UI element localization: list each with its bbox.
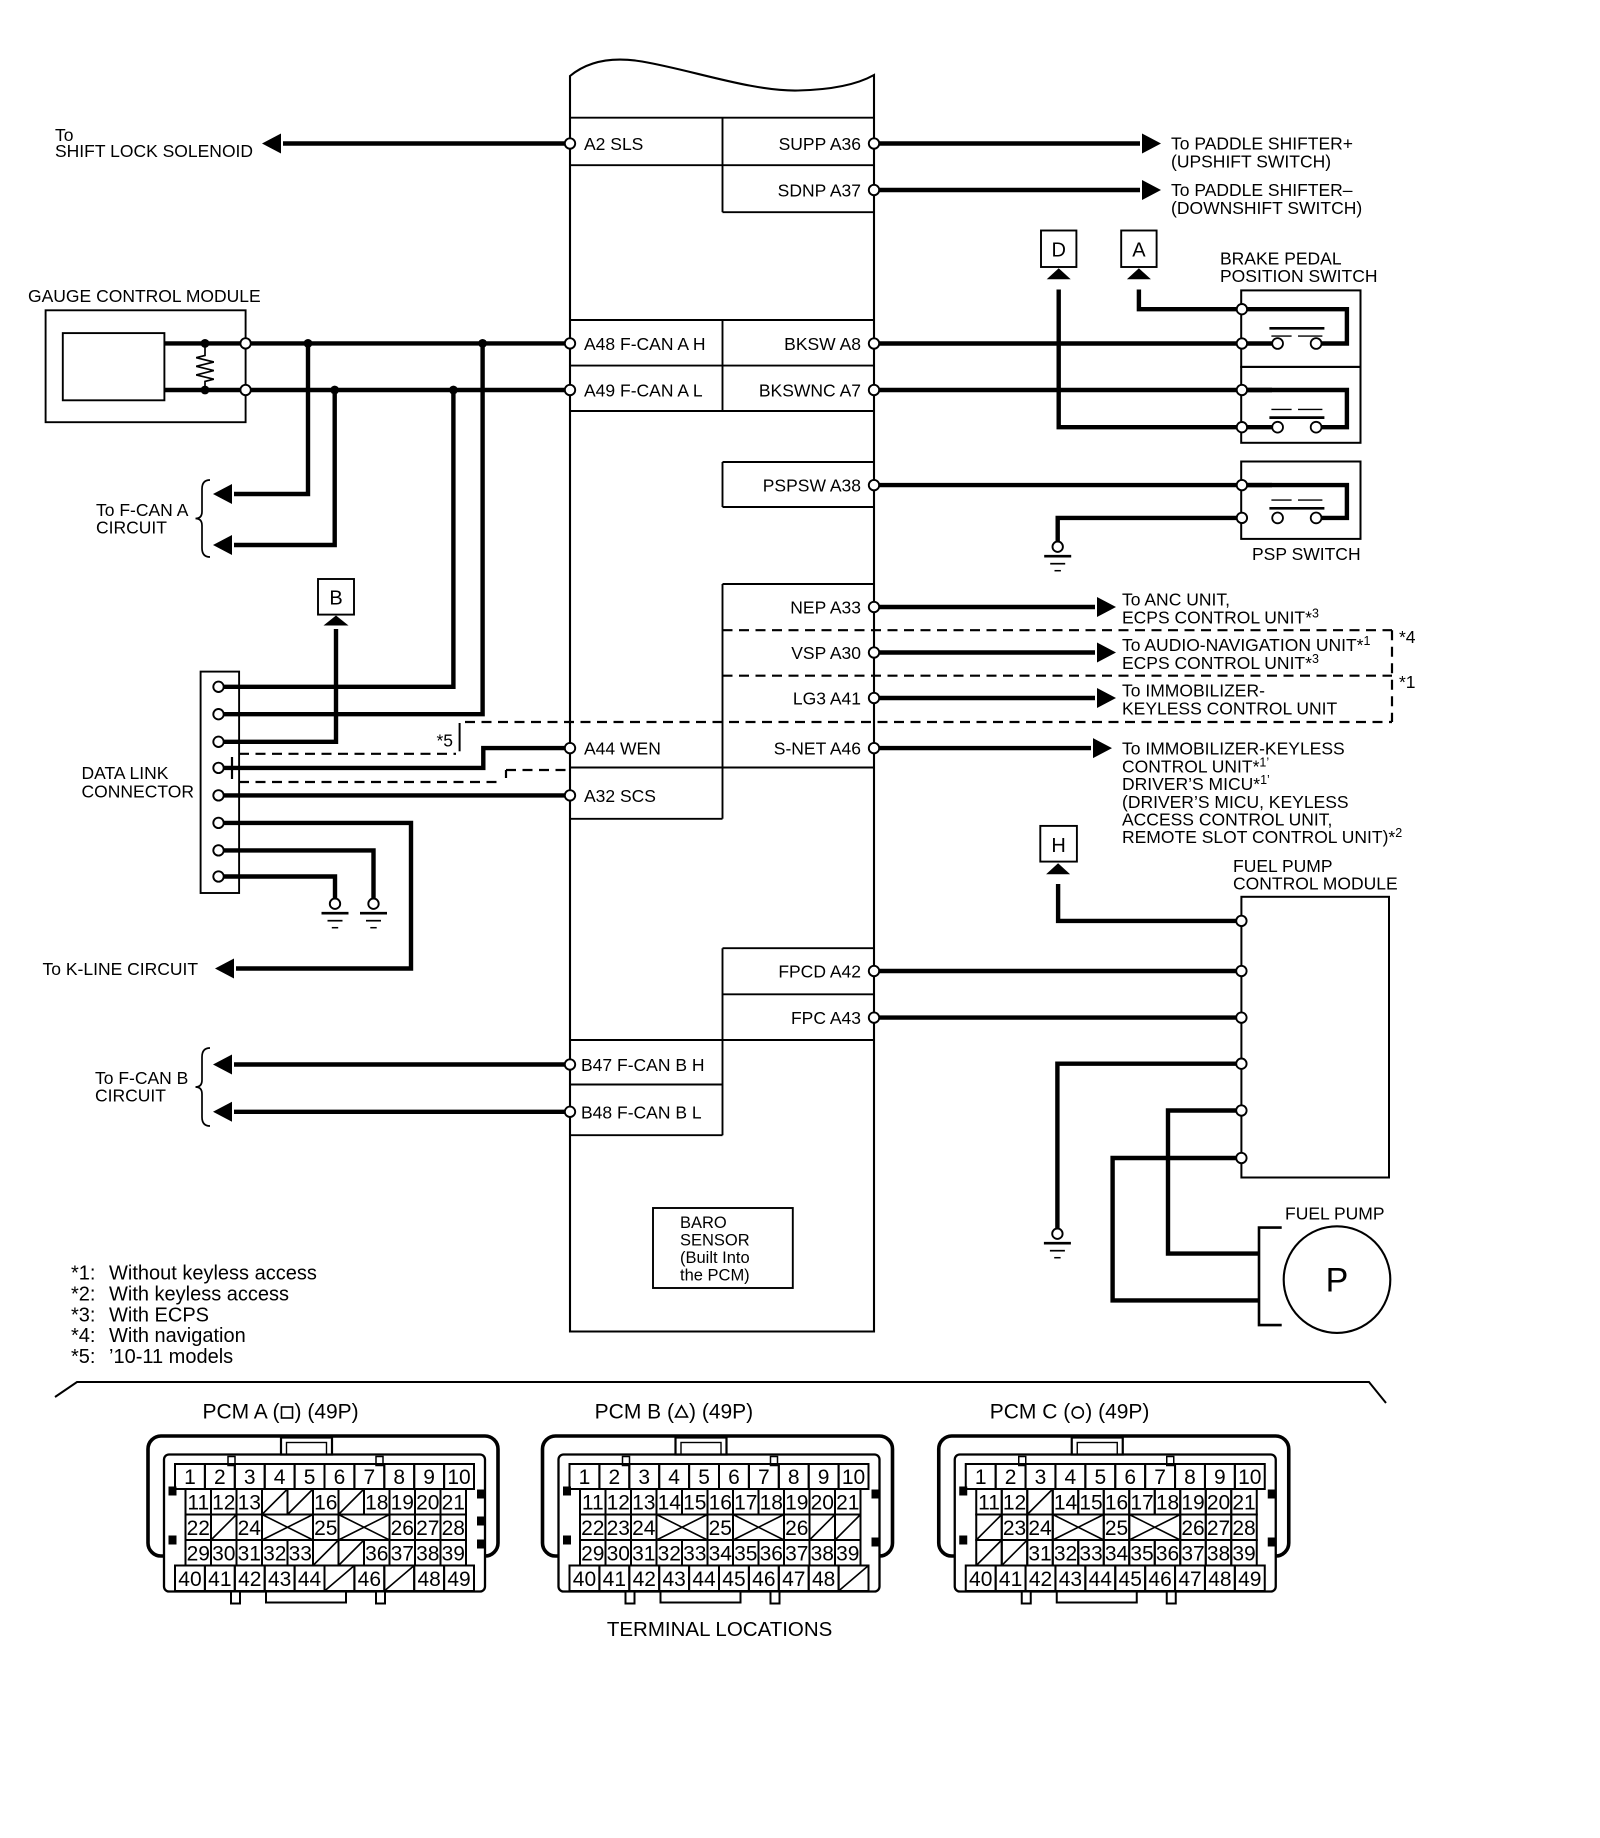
svg-text:PCM B (: PCM B ( xyxy=(595,1401,674,1424)
module ground wire xyxy=(1057,1064,1241,1229)
svg-text:10: 10 xyxy=(447,1466,470,1489)
svg-text:27: 27 xyxy=(1207,1517,1230,1540)
svg-text:33: 33 xyxy=(683,1542,706,1565)
svg-text:14: 14 xyxy=(1054,1491,1078,1514)
terminal connector PCM B (49P) xyxy=(543,1401,893,1604)
svg-text:PCM A (: PCM A ( xyxy=(202,1401,279,1424)
svg-text:DATA LINK: DATA LINK xyxy=(82,763,169,783)
dashed jog vertical xyxy=(505,770,507,782)
wire connector H to module xyxy=(1058,884,1241,921)
svg-text:9: 9 xyxy=(423,1466,435,1489)
wire F-CAN A L xyxy=(164,388,570,392)
svg-text:45: 45 xyxy=(1119,1568,1142,1591)
svg-text:44: 44 xyxy=(1089,1568,1113,1591)
svg-text:B47 F-CAN B H: B47 F-CAN B H xyxy=(581,1055,705,1075)
svg-text:With ECPS: With ECPS xyxy=(109,1304,209,1326)
wire SUPP A36 to paddle shifter+ xyxy=(874,141,1140,145)
svg-text:FUEL PUMP: FUEL PUMP xyxy=(1285,1204,1385,1224)
svg-text:*1: *1 xyxy=(1399,672,1416,692)
switch2 internal jumper xyxy=(1242,390,1347,427)
svg-text:44: 44 xyxy=(298,1568,322,1591)
DLC pin 7 xyxy=(213,845,223,855)
svg-text:42: 42 xyxy=(238,1568,261,1591)
pin circle A37 xyxy=(869,185,879,195)
wire FPC A43 xyxy=(874,1015,1241,1019)
svg-text:6: 6 xyxy=(728,1466,740,1489)
svg-text:16: 16 xyxy=(709,1491,732,1514)
svg-text:21: 21 xyxy=(1232,1491,1255,1514)
wire LG3 A41 xyxy=(874,696,1095,700)
svg-text:16: 16 xyxy=(1105,1491,1128,1514)
svg-text:GAUGE CONTROL MODULE: GAUGE CONTROL MODULE xyxy=(28,286,261,306)
svg-text:5: 5 xyxy=(304,1466,316,1489)
pin circle A42 xyxy=(869,966,879,976)
terminal connector PCM A (49P) xyxy=(148,1401,498,1604)
wire module to fuel pump + xyxy=(1168,1111,1259,1254)
svg-text:Without keyless access: Without keyless access xyxy=(109,1263,317,1285)
svg-text:49: 49 xyxy=(1238,1568,1261,1591)
switch2 pin lower xyxy=(1237,422,1247,432)
svg-text:3: 3 xyxy=(1035,1466,1047,1489)
svg-text:20: 20 xyxy=(811,1491,834,1514)
svg-text:*3:: *3: xyxy=(71,1304,95,1326)
pin circle A30 xyxy=(869,647,879,657)
module pin H xyxy=(1236,916,1246,926)
svg-text:42: 42 xyxy=(1029,1568,1052,1591)
wire S-NET A46 xyxy=(874,746,1091,750)
PCM pin cell lines xyxy=(570,117,874,119)
svg-text:41: 41 xyxy=(603,1568,626,1591)
svg-text:12: 12 xyxy=(212,1491,235,1514)
pin circle A36 xyxy=(869,138,879,148)
svg-text:39: 39 xyxy=(836,1542,859,1565)
wire DLC pin1 to F-CAN A L xyxy=(219,390,454,687)
module pin GND xyxy=(1236,1059,1246,1069)
PSP pin upper xyxy=(1237,480,1247,490)
svg-text:4: 4 xyxy=(1065,1466,1077,1489)
pin circle B47 xyxy=(565,1059,575,1069)
DLC pin 8 xyxy=(213,871,223,881)
svg-text:39: 39 xyxy=(1232,1542,1255,1565)
svg-text:24: 24 xyxy=(632,1517,656,1540)
svg-text:40: 40 xyxy=(573,1568,596,1591)
svg-text:40: 40 xyxy=(969,1568,992,1591)
svg-text:1: 1 xyxy=(184,1466,196,1489)
svg-text:34: 34 xyxy=(1105,1542,1129,1565)
svg-text:) (49P): ) (49P) xyxy=(295,1401,359,1424)
svg-text:5: 5 xyxy=(1094,1466,1106,1489)
pin circle A7 xyxy=(869,385,879,395)
wire VSP A30 xyxy=(874,650,1095,654)
arrowhead F-CAN A L xyxy=(213,535,232,555)
svg-text:11: 11 xyxy=(582,1491,604,1514)
wire DLC to K-line circuit xyxy=(224,823,411,969)
svg-text:2: 2 xyxy=(1005,1466,1017,1489)
svg-text:11: 11 xyxy=(187,1491,209,1514)
svg-text:41: 41 xyxy=(208,1568,231,1591)
arrowhead into B xyxy=(324,616,349,626)
wire A44 WEN xyxy=(224,748,570,768)
svg-text:H: H xyxy=(1051,835,1065,857)
pin circle A49 xyxy=(565,385,575,395)
section separator line xyxy=(55,1382,1386,1403)
svg-text:36: 36 xyxy=(1156,1542,1179,1565)
module pin FP+ xyxy=(1236,1105,1246,1115)
svg-text:37: 37 xyxy=(785,1542,808,1565)
fuel pump bracket xyxy=(1259,1228,1282,1326)
svg-text:23: 23 xyxy=(607,1517,630,1540)
svg-text:28: 28 xyxy=(442,1517,465,1540)
svg-text:17: 17 xyxy=(1130,1491,1153,1514)
wire SDNP A37 to paddle shifter- xyxy=(874,188,1140,192)
ground PSP switch xyxy=(1044,542,1071,571)
svg-text:) (49P): ) (49P) xyxy=(689,1401,753,1424)
svg-text:31: 31 xyxy=(238,1542,261,1565)
svg-text:42: 42 xyxy=(633,1568,656,1591)
svg-text:D: D xyxy=(1051,240,1065,262)
svg-text:26: 26 xyxy=(785,1517,808,1540)
svg-text:8: 8 xyxy=(788,1466,800,1489)
pin circle B48 xyxy=(565,1107,575,1117)
connector box B xyxy=(318,579,354,615)
svg-text:18: 18 xyxy=(760,1491,783,1514)
dashed wire from DLC pin4 row xyxy=(239,781,497,783)
svg-text:20: 20 xyxy=(416,1491,439,1514)
svg-text:5: 5 xyxy=(698,1466,710,1489)
arrowhead F-CAN A H xyxy=(213,484,232,504)
svg-text:With keyless access: With keyless access xyxy=(109,1284,289,1306)
brake switch box 1 xyxy=(1241,290,1360,367)
svg-text:43: 43 xyxy=(662,1568,685,1591)
svg-text:8: 8 xyxy=(393,1466,405,1489)
svg-text:33: 33 xyxy=(289,1542,312,1565)
svg-text:32: 32 xyxy=(263,1542,286,1565)
svg-text:48: 48 xyxy=(417,1568,440,1591)
wire module to fuel pump - xyxy=(1113,1158,1259,1300)
svg-text:*5: *5 xyxy=(436,731,453,751)
svg-text:9: 9 xyxy=(818,1466,830,1489)
resistor inside gauge module xyxy=(196,343,214,390)
svg-text:11: 11 xyxy=(978,1491,1000,1514)
svg-text:18: 18 xyxy=(1156,1491,1179,1514)
svg-text:SDNP A37: SDNP A37 xyxy=(778,181,861,201)
svg-text:38: 38 xyxy=(1207,1542,1230,1565)
PCM inner column line xyxy=(722,118,724,213)
arrowhead LG3 xyxy=(1097,688,1116,708)
svg-text:FPCD A42: FPCD A42 xyxy=(778,962,861,982)
switch1 contacts (normally open) xyxy=(1269,328,1324,349)
svg-text:PSPSW A38: PSPSW A38 xyxy=(763,476,861,496)
wire F-CAN A H to F-CAN A circuit xyxy=(234,343,308,494)
connector box A xyxy=(1121,231,1156,268)
svg-text:33: 33 xyxy=(1079,1542,1102,1565)
arrowhead NEP xyxy=(1097,597,1116,617)
wire BKSWNC A7 to switch2 xyxy=(874,388,1272,392)
svg-text:30: 30 xyxy=(212,1542,235,1565)
wire from connector D to switch2 xyxy=(1059,290,1242,428)
svg-text:37: 37 xyxy=(391,1542,414,1565)
pin circle A44 xyxy=(565,743,575,753)
svg-text:43: 43 xyxy=(1059,1568,1082,1591)
svg-text:19: 19 xyxy=(1181,1491,1204,1514)
svg-text:*4: *4 xyxy=(1399,627,1416,647)
svg-text:3: 3 xyxy=(244,1466,256,1489)
svg-text:48: 48 xyxy=(812,1568,835,1591)
svg-text:32: 32 xyxy=(658,1542,681,1565)
svg-text:6: 6 xyxy=(1124,1466,1136,1489)
svg-text:29: 29 xyxy=(187,1542,210,1565)
pin circle A33 xyxy=(869,602,879,612)
svg-text:7: 7 xyxy=(364,1466,376,1489)
arrowhead B48 xyxy=(213,1102,232,1122)
svg-text:46: 46 xyxy=(358,1568,381,1591)
pin circle A41 xyxy=(869,693,879,703)
junction F-CAN A L branch xyxy=(330,386,339,395)
svg-text:40: 40 xyxy=(178,1568,201,1591)
svg-text:PCM C (: PCM C ( xyxy=(990,1401,1071,1424)
svg-text:30: 30 xyxy=(607,1542,630,1565)
arrowhead B47 xyxy=(213,1055,232,1075)
switch1 pin lower xyxy=(1237,338,1247,348)
svg-text:13: 13 xyxy=(238,1491,261,1514)
svg-text:BKSW A8: BKSW A8 xyxy=(784,334,861,354)
wire DLC pin3 to connector B xyxy=(219,629,337,742)
ground DLC left xyxy=(322,899,349,928)
svg-text:CONNECTOR: CONNECTOR xyxy=(82,782,194,802)
svg-text:18: 18 xyxy=(365,1491,388,1514)
svg-text:19: 19 xyxy=(391,1491,414,1514)
fuel pump control module box xyxy=(1241,897,1389,1178)
svg-text:A44 WEN: A44 WEN xyxy=(584,739,661,759)
DLC pin 1 xyxy=(213,682,223,692)
svg-text:12: 12 xyxy=(607,1491,630,1514)
DLC pin 4 xyxy=(213,763,223,773)
switch2 pin upper xyxy=(1237,385,1247,395)
switch2 contacts (normally closed) xyxy=(1269,409,1324,432)
data link connector box xyxy=(201,672,240,893)
svg-text:36: 36 xyxy=(760,1542,783,1565)
junction resistor top xyxy=(201,339,210,348)
PSP switch box xyxy=(1241,462,1360,539)
svg-text:47: 47 xyxy=(1178,1568,1201,1591)
tick on WEN wire xyxy=(231,757,233,779)
svg-text:46: 46 xyxy=(1148,1568,1171,1591)
module pin FPCD xyxy=(1236,966,1246,976)
wire from connector A to switch1 xyxy=(1139,290,1242,310)
svg-text:10: 10 xyxy=(842,1466,865,1489)
pin circle A38 xyxy=(869,480,879,490)
svg-text:8: 8 xyxy=(1184,1466,1196,1489)
DLC pin 2 xyxy=(213,709,223,719)
svg-text:2: 2 xyxy=(214,1466,226,1489)
pin circle A46 xyxy=(869,743,879,753)
svg-text:A2 SLS: A2 SLS xyxy=(584,134,643,154)
svg-text:FPC A43: FPC A43 xyxy=(791,1008,861,1028)
wire F-CAN A L to F-CAN A circuit xyxy=(234,390,335,545)
wire DLC pin8 to ground xyxy=(224,877,335,899)
svg-text:To PADDLE SHIFTER+(UPSHIFT SWI: To PADDLE SHIFTER+(UPSHIFT SWITCH) xyxy=(1171,134,1353,172)
terminal connector PCM C (49P) xyxy=(939,1401,1289,1604)
svg-text:19: 19 xyxy=(785,1491,808,1514)
dashed option lines (*4/*1 bracket region) xyxy=(723,629,1393,631)
svg-text:31: 31 xyxy=(1028,1542,1051,1565)
svg-text:14: 14 xyxy=(658,1491,682,1514)
svg-text:29: 29 xyxy=(581,1542,604,1565)
svg-text:LG3 A41: LG3 A41 xyxy=(793,689,861,709)
switch1 internal jumper xyxy=(1242,309,1347,343)
module pin FP- xyxy=(1236,1153,1246,1163)
PSP pin lower xyxy=(1237,513,1247,523)
svg-text:28: 28 xyxy=(1232,1517,1255,1540)
arrowhead to shift lock solenoid xyxy=(262,134,281,154)
gauge module pin bottom xyxy=(240,385,250,395)
svg-text:A32 SCS: A32 SCS xyxy=(584,786,656,806)
svg-text:A: A xyxy=(1132,240,1146,262)
brake switch box 2 xyxy=(1241,367,1360,443)
connector box H xyxy=(1040,826,1077,862)
svg-text:32: 32 xyxy=(1054,1542,1077,1565)
svg-text:4: 4 xyxy=(274,1466,286,1489)
PCM outline with torn wavy top xyxy=(570,60,874,1332)
svg-text:39: 39 xyxy=(442,1542,465,1565)
svg-text:25: 25 xyxy=(1105,1517,1128,1540)
svg-text:2: 2 xyxy=(609,1466,621,1489)
*5 reference bar xyxy=(459,723,461,751)
svg-text:26: 26 xyxy=(391,1517,414,1540)
svg-text:16: 16 xyxy=(314,1491,337,1514)
svg-text:41: 41 xyxy=(999,1568,1022,1591)
BARO sensor box xyxy=(653,1208,793,1288)
svg-text:To K-LINE CIRCUIT: To K-LINE CIRCUIT xyxy=(43,959,199,979)
svg-text:36: 36 xyxy=(365,1542,388,1565)
svg-text:35: 35 xyxy=(734,1542,757,1565)
svg-text:S-NET A46: S-NET A46 xyxy=(774,739,861,759)
arrowhead into H xyxy=(1046,863,1070,874)
ground DLC right xyxy=(360,899,387,928)
wire PSPSW A38 to PSP switch xyxy=(874,483,1272,487)
svg-text:34: 34 xyxy=(709,1542,733,1565)
DLC pin 6 xyxy=(213,818,223,828)
wire FPCD A42 xyxy=(874,969,1241,973)
svg-text:35: 35 xyxy=(1130,1542,1153,1565)
pin circle A32 xyxy=(565,790,575,800)
module pin FPC xyxy=(1236,1012,1246,1022)
svg-text:B: B xyxy=(329,588,342,610)
svg-text:24: 24 xyxy=(1028,1517,1052,1540)
svg-text:10: 10 xyxy=(1238,1466,1261,1489)
svg-text:25: 25 xyxy=(709,1517,732,1540)
wire F-CAN A H xyxy=(164,341,570,345)
DLC pin 5 xyxy=(213,790,223,800)
svg-text:17: 17 xyxy=(734,1491,757,1514)
switch2 lower contact wire xyxy=(1242,425,1272,429)
junction to DLC pin1 xyxy=(449,386,458,395)
DLC pin 3 xyxy=(213,737,223,747)
svg-text:15: 15 xyxy=(1079,1491,1102,1514)
svg-text:P: P xyxy=(1326,1262,1349,1300)
wire A2 SLS to shift lock solenoid xyxy=(283,141,570,145)
gauge module pin top xyxy=(240,338,250,348)
svg-text:44: 44 xyxy=(692,1568,716,1591)
svg-text:49: 49 xyxy=(447,1568,470,1591)
svg-text:*2:: *2: xyxy=(71,1284,95,1306)
svg-text:12: 12 xyxy=(1003,1491,1026,1514)
svg-text:*5:: *5: xyxy=(71,1346,95,1368)
svg-text:*4:: *4: xyxy=(71,1325,95,1347)
svg-text:26: 26 xyxy=(1181,1517,1204,1540)
wire B47 F-CAN B H xyxy=(234,1062,570,1066)
gauge control module box xyxy=(46,310,246,422)
svg-text:43: 43 xyxy=(268,1568,291,1591)
svg-text:B48 F-CAN B L: B48 F-CAN B L xyxy=(581,1102,702,1122)
dashed jog to PCM xyxy=(506,769,570,771)
arrowhead paddle shifter- xyxy=(1142,180,1161,200)
PSP switch wire to ground xyxy=(1058,518,1242,542)
svg-text:A49 F-CAN A L: A49 F-CAN A L xyxy=(584,381,703,401)
gauge inner unit box xyxy=(63,333,165,400)
dashed *5 wire lower xyxy=(239,753,456,755)
svg-text:45: 45 xyxy=(722,1568,745,1591)
junction F-CAN A H branch xyxy=(304,339,313,348)
svg-text:) (49P): ) (49P) xyxy=(1085,1401,1149,1424)
brace F-CAN B circuit xyxy=(196,1048,211,1126)
wire DLC pin2 to F-CAN A H xyxy=(219,343,483,714)
svg-text:BKSWNC A7: BKSWNC A7 xyxy=(759,381,861,401)
svg-text:PSP SWITCH: PSP SWITCH xyxy=(1252,544,1361,564)
svg-text:VSP A30: VSP A30 xyxy=(791,643,861,663)
svg-text:7: 7 xyxy=(758,1466,770,1489)
pin circle A8 xyxy=(869,338,879,348)
svg-text:22: 22 xyxy=(187,1517,210,1540)
arrowhead into A xyxy=(1127,268,1151,279)
wire B48 F-CAN B L xyxy=(234,1110,570,1114)
pin circle A43 xyxy=(869,1012,879,1022)
svg-text:9: 9 xyxy=(1214,1466,1226,1489)
wire NEP A33 xyxy=(874,605,1095,609)
PSP contacts (normally closed) xyxy=(1269,500,1324,523)
switch1 pin upper xyxy=(1237,304,1247,314)
svg-text:To PADDLE SHIFTER–(DOWNSHIFT S: To PADDLE SHIFTER–(DOWNSHIFT SWITCH) xyxy=(1171,180,1362,218)
svg-text:21: 21 xyxy=(442,1491,465,1514)
svg-text:22: 22 xyxy=(581,1517,604,1540)
svg-text:24: 24 xyxy=(238,1517,262,1540)
svg-text:SUPP A36: SUPP A36 xyxy=(779,134,861,154)
pin circle A2 xyxy=(565,138,575,148)
wire DLC pin7 to ground xyxy=(224,850,374,898)
arrowhead VSP xyxy=(1097,643,1116,663)
svg-text:37: 37 xyxy=(1181,1542,1204,1565)
wire BKSW A8 to switch1 xyxy=(874,341,1272,345)
ground fuel pump module xyxy=(1044,1229,1071,1258)
svg-text:47: 47 xyxy=(782,1568,805,1591)
svg-text:13: 13 xyxy=(632,1491,655,1514)
svg-text:20: 20 xyxy=(1207,1491,1230,1514)
svg-text:With navigation: With navigation xyxy=(109,1325,246,1347)
svg-text:38: 38 xyxy=(416,1542,439,1565)
svg-text:48: 48 xyxy=(1208,1568,1231,1591)
brace F-CAN A circuit xyxy=(196,480,211,557)
svg-text:38: 38 xyxy=(811,1542,834,1565)
svg-text:TERMINAL LOCATIONS: TERMINAL LOCATIONS xyxy=(607,1618,833,1641)
svg-text:15: 15 xyxy=(683,1491,706,1514)
svg-text:6: 6 xyxy=(334,1466,346,1489)
svg-text:*1:: *1: xyxy=(71,1263,95,1285)
svg-text:31: 31 xyxy=(632,1542,655,1565)
svg-text:46: 46 xyxy=(752,1568,775,1591)
svg-text:1: 1 xyxy=(975,1466,987,1489)
svg-text:A48 F-CAN A H: A48 F-CAN A H xyxy=(584,334,706,354)
svg-text:1: 1 xyxy=(579,1466,591,1489)
